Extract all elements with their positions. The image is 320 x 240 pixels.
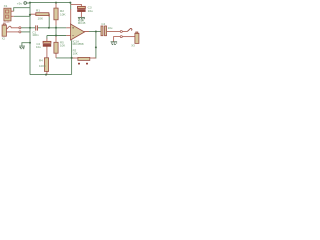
resistor R4: [44, 58, 48, 72]
lead op-amp V+: [70, 9, 72, 24]
wire op-amp V- riser to bottom rail: [71, 40, 73, 74]
svg-text:X1: X1: [4, 4, 8, 8]
svg-text:100K: 100K: [39, 64, 46, 68]
capacitor C3 polarized: [78, 6, 86, 8]
node riser / R5-R3 wire: [71, 57, 73, 59]
node +5V rail / bus: [29, 2, 31, 4]
lead R1 left: [30, 13, 36, 15]
capacitor C1: [35, 25, 36, 30]
pin circle output sleeve: [120, 36, 122, 38]
wire -IN horizontal: [47, 35, 66, 37]
svg-text:10K: 10K: [38, 17, 44, 21]
svg-text:10K: 10K: [73, 52, 78, 56]
wire R1 drop to +IN node: [48, 14, 50, 28]
node bus / R1 / pin2: [29, 14, 31, 16]
connector X1 pin squares: [6, 10, 9, 13]
resistor R5: [54, 42, 58, 53]
svg-text:10K: 10K: [60, 43, 65, 47]
node R2 drop on +IN wire: [55, 27, 57, 29]
svg-text:+5v: +5v: [17, 2, 23, 6]
ground output: [111, 42, 118, 45]
svg-text:10u: 10u: [108, 26, 113, 30]
node R5 top on -IN wire: [55, 35, 57, 37]
lead R2 bottom: [55, 20, 57, 26]
wire jack bottom contact to bus: [21, 31, 30, 33]
lead C2 top: [46, 39, 48, 42]
node R1 drop on +IN wire: [48, 27, 50, 29]
resistor R3: [78, 57, 90, 60]
wire +5V rail: [30, 2, 71, 4]
resistor R2: [54, 8, 58, 20]
svg-text:10K: 10K: [60, 12, 66, 16]
wire left vertical bus: [29, 3, 31, 75]
svg-text:X3: X3: [131, 44, 135, 48]
svg-text:R1: R1: [36, 8, 40, 12]
lead R1 right: [48, 14, 50, 17]
wire ground stub left: [22, 43, 30, 46]
lead R3 left: [72, 57, 78, 59]
jack output tip spring: [127, 28, 132, 31]
svg-text:100n: 100n: [32, 33, 39, 37]
lead R2 top: [55, 3, 57, 9]
lead C3 top tap: [71, 4, 82, 6]
jack input sleeve line: [6, 31, 19, 33]
capacitor C2 polarized: [43, 41, 51, 43]
wire +5V drop to op-amp V+: [70, 3, 72, 10]
wire rail to connector pin1: [14, 8, 30, 12]
wire jack top contact to bus and C1: [21, 27, 36, 29]
node output / C4: [95, 31, 97, 33]
wire bottom rail: [30, 74, 72, 76]
ground left: [19, 46, 25, 49]
wire output jack sleeve pin line: [122, 36, 134, 38]
lead R5 bottom: [55, 53, 57, 58]
lead R4 bottom: [46, 71, 48, 74]
svg-text:10u: 10u: [36, 45, 41, 49]
op-amp - mark: [72, 35, 74, 37]
svg-text:10u: 10u: [88, 9, 93, 13]
wire output jack sleeve: [114, 37, 121, 42]
wire +5v stub: [27, 2, 30, 4]
jack X2 input: [2, 25, 6, 36]
connector X1 body: [4, 8, 11, 21]
ground under C3: [78, 17, 85, 20]
lead R5 top: [55, 36, 57, 43]
op-amp + mark: [72, 27, 74, 29]
wire -IN corner down to C2: [46, 36, 48, 39]
pin circle input tip: [19, 27, 21, 29]
red dot pad right: [86, 63, 88, 65]
node output riser mid: [95, 46, 97, 48]
wire R5 bottom to R3 left: [56, 57, 75, 59]
lead C3 bottom: [80, 12, 82, 17]
svg-text:R4: R4: [39, 58, 43, 62]
red dot pad left: [78, 63, 80, 65]
resistor R1: [36, 13, 49, 16]
lead connector pin1: [9, 10, 14, 12]
capacitor C4: [101, 26, 103, 36]
node bus / jack tip wire: [29, 27, 31, 29]
lead R3 right: [90, 57, 96, 59]
node rail / V+ drop: [69, 2, 71, 4]
wire jack tip pin line: [11, 27, 19, 29]
pin circle output tip: [120, 31, 122, 33]
node R4 bottom on rail: [45, 74, 47, 76]
pin circle input sleeve: [19, 31, 21, 33]
lead C4 right / output wire: [107, 31, 120, 33]
node R2 top on rail: [55, 2, 57, 4]
wire C1 to op-amp +IN: [38, 27, 66, 29]
lead op-amp output: [85, 31, 90, 34]
wire connector pin2 to bus: [14, 15, 30, 17]
wire output circle to jack hook: [122, 31, 127, 33]
lead op-amp +IN: [66, 27, 70, 29]
jack input tip spring: [7, 26, 12, 29]
supply +5v circle: [24, 2, 27, 5]
svg-text:MC4558: MC4558: [73, 42, 84, 46]
lead C2 bottom to R4: [46, 46, 48, 57]
node bus / ground stub: [29, 42, 31, 44]
op-amp IC1A: [71, 24, 85, 40]
junction dots: [29, 2, 97, 76]
wire R2 drop through +IN to -IN node: [55, 25, 57, 35]
svg-text:X2: X2: [2, 36, 6, 40]
wire op-amp output: [88, 31, 101, 33]
svg-text:MC45: MC45: [78, 21, 86, 25]
svg-text:C4: C4: [101, 22, 105, 26]
wire output riser to feedback: [93, 32, 96, 59]
lead connector pin2: [9, 15, 14, 17]
jack X3 output: [135, 33, 139, 43]
lead op-amp -IN: [66, 35, 70, 37]
